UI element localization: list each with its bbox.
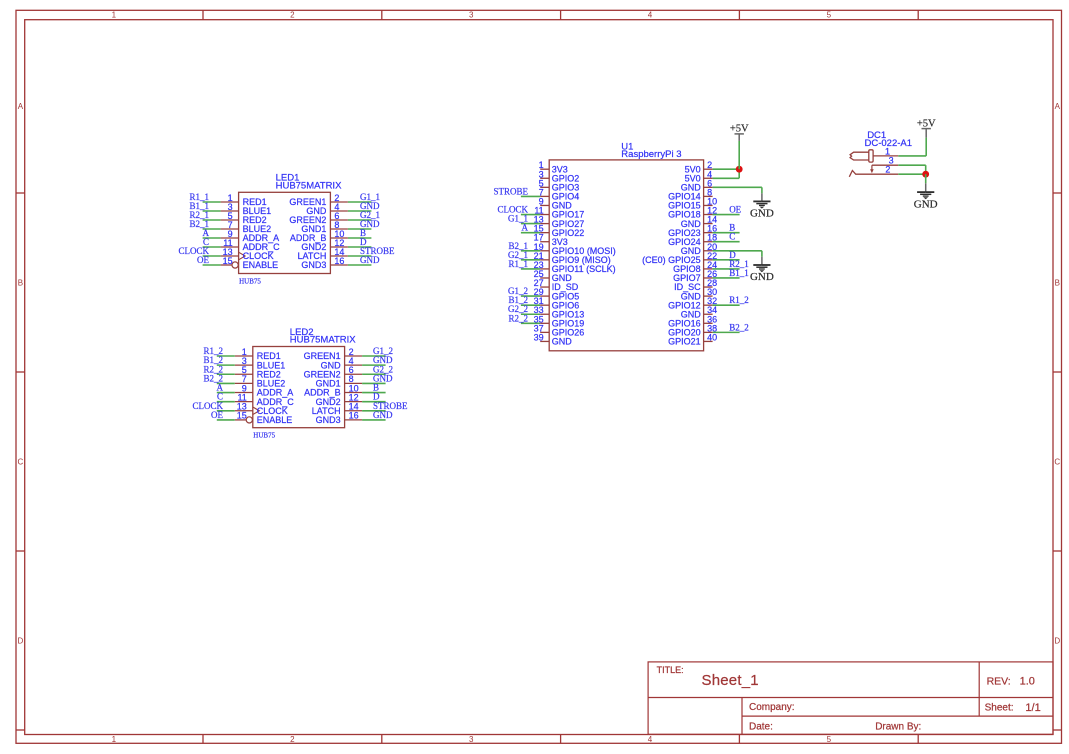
wire net D to LED1 pin 12 — [348, 246, 372, 248]
svg-text:ENABLE: ENABLE — [257, 415, 293, 425]
pin 40 GPIO21 — [704, 340, 713, 342]
connector LED1 HUB75MATRIX — [221, 173, 348, 286]
wire net A to LED2 pin 9 — [217, 392, 235, 394]
ground GND (U1 pin 6) — [750, 201, 774, 219]
svg-text:16: 16 — [349, 411, 359, 421]
junction dot DC1 — [922, 171, 929, 178]
pin 6 GND — [704, 186, 713, 188]
svg-text:C: C — [1054, 457, 1060, 466]
svg-text:3: 3 — [469, 735, 474, 744]
pin 12 GPIO18 — [704, 214, 713, 216]
pin 14 LATCH — [330, 255, 348, 257]
svg-text:ENABLE: ENABLE — [243, 260, 279, 270]
svg-text:GND: GND — [373, 410, 393, 420]
wire U1 pin 20 to GND — [713, 250, 762, 252]
pin 26 GPIO7 — [704, 277, 713, 279]
svg-text:HUB75: HUB75 — [253, 432, 275, 440]
pin 10 GPIO15 — [704, 204, 713, 206]
wire net B2_1 to U1 pin 19 — [521, 250, 540, 252]
wire U1 pin 4 — [713, 177, 740, 179]
connector LED2 HUB75MATRIX — [235, 327, 362, 440]
pin 24 GPIO8 — [704, 268, 713, 270]
svg-text:4: 4 — [648, 735, 653, 744]
wire net G1_2 to U1 pin 29 — [521, 295, 540, 297]
svg-text:Drawn By:: Drawn By: — [875, 722, 921, 733]
wire net GND to LED1 pin 8 — [348, 228, 372, 230]
svg-text:GND: GND — [914, 198, 938, 210]
wire net OE to U1 pin 12 — [713, 214, 740, 216]
wire net B2_2 to U1 pin 38 — [713, 331, 740, 333]
wire net STROBE to U1 pin 7 — [521, 195, 540, 197]
pin 30 GND — [704, 295, 713, 297]
pin 10 ADDR_B — [330, 237, 348, 239]
pin 3 — [872, 164, 898, 166]
svg-text:+5V: +5V — [917, 119, 936, 130]
pin 31 GPIO6 — [540, 304, 549, 306]
wire net B to LED2 pin 10 — [362, 392, 386, 394]
wire net B to U1 pin 16 — [713, 232, 740, 234]
wire net CLOCK to LED1 pin 13 — [203, 255, 221, 257]
wire net B1_2 to U1 pin 31 — [521, 304, 540, 306]
pin 23 GPIO11 (SCLK) — [540, 268, 549, 270]
svg-text:GPIO21: GPIO21 — [668, 337, 701, 347]
svg-text:1.0: 1.0 — [1020, 676, 1035, 688]
svg-text:Company:: Company: — [749, 702, 795, 713]
pin 7 GPIO4 — [540, 195, 549, 197]
wire net OE to LED2 pin 15 — [217, 419, 235, 421]
svg-text:OE: OE — [729, 205, 741, 215]
svg-text:2: 2 — [885, 165, 890, 175]
svg-text:GND: GND — [360, 255, 380, 265]
pin 18 GPIO24 — [704, 241, 713, 243]
ground GND (U1 pin 20) — [750, 265, 774, 283]
wire net D to U1 pin 22 — [713, 259, 740, 261]
svg-text:HUB75MATRIX: HUB75MATRIX — [290, 335, 356, 346]
wire net R1_2 to U1 pin 32 — [713, 304, 740, 306]
svg-text:B: B — [1055, 278, 1060, 287]
svg-text:C: C — [18, 457, 24, 466]
pin 8 GND1 — [345, 382, 363, 384]
svg-text:16: 16 — [334, 256, 344, 266]
wire net GND to LED1 pin 4 — [348, 210, 372, 212]
pin 27 ID_SD — [540, 286, 549, 288]
pin 16 GPIO23 — [704, 232, 713, 234]
svg-text:GND: GND — [750, 208, 774, 220]
svg-text:TITLE:: TITLE: — [657, 665, 684, 675]
pin 14 GND — [704, 223, 713, 225]
pin 13 CLOCK — [221, 255, 239, 257]
power symbol +5V (U1) — [730, 124, 749, 141]
wire net G1_1 to LED1 pin 2 — [348, 201, 372, 203]
svg-text:5: 5 — [827, 11, 832, 20]
svg-text:R2_2: R2_2 — [508, 313, 528, 323]
pin 36 GPIO16 — [704, 322, 713, 324]
svg-text:REV:: REV: — [987, 676, 1011, 688]
wire net A to LED1 pin 9 — [203, 237, 221, 239]
svg-text:D: D — [1054, 636, 1060, 645]
pin 12 GND2 — [330, 246, 348, 248]
svg-text:A: A — [1055, 102, 1061, 111]
wire net B1_2 to LED2 pin 3 — [217, 364, 235, 366]
pin 10 ADDR_B — [345, 392, 363, 394]
wire net STROBE to LED2 pin 14 — [362, 410, 386, 412]
pin 20 GND — [704, 250, 713, 252]
svg-text:15: 15 — [223, 256, 233, 266]
wire net B2_2 to LED2 pin 7 — [217, 382, 235, 384]
wire DC1 pin 1 to +5V — [898, 155, 926, 157]
wire net A to U1 pin 15 — [521, 232, 540, 234]
pin 13 GPIO27 — [540, 223, 549, 225]
svg-text:15: 15 — [237, 411, 247, 421]
svg-text:B1_1: B1_1 — [729, 268, 749, 278]
wire net B1_1 to U1 pin 26 — [713, 277, 740, 279]
pin 5 RED2 — [235, 373, 253, 375]
wire net G1_2 to LED2 pin 2 — [362, 355, 386, 357]
wire net GND to LED2 pin 4 — [362, 364, 386, 366]
connector DC1 DC-022-A1 — [849, 130, 912, 177]
pin 2 GREEN1 — [330, 201, 348, 203]
wire net STROBE to LED1 pin 14 — [348, 255, 372, 257]
svg-text:HUB75MATRIX: HUB75MATRIX — [276, 180, 342, 191]
junction dot — [736, 166, 743, 173]
svg-text:A: A — [522, 223, 529, 233]
wire U1 pin 2 to +5V junction — [713, 168, 740, 170]
pin 16 GND3 — [345, 419, 363, 421]
pin 39 GND — [540, 340, 549, 342]
svg-text:1: 1 — [112, 11, 117, 20]
pin 1 3V3 — [540, 168, 549, 170]
pin 2 GREEN1 — [345, 355, 363, 357]
svg-text:4: 4 — [648, 11, 653, 20]
svg-text:Sheet:: Sheet: — [985, 703, 1014, 714]
wire net R1_2 to LED2 pin 1 — [217, 355, 235, 357]
svg-text:1: 1 — [112, 735, 117, 744]
svg-text:2: 2 — [290, 735, 295, 744]
svg-text:GND3: GND3 — [316, 415, 341, 425]
pin 2 — [849, 171, 898, 177]
pin 1 — [873, 155, 898, 157]
ground GND (DC1) — [914, 192, 938, 210]
svg-text:OE: OE — [197, 255, 209, 265]
pin 4 5V0 — [704, 177, 713, 179]
wire net CLOCK to U1 pin 11 — [521, 214, 540, 216]
pin 2 5V0 — [704, 168, 713, 170]
pin 4 GND — [345, 364, 363, 366]
wire DC1 pin 2 — [898, 173, 925, 175]
pin 11 ADDR_C — [235, 401, 253, 403]
pin 14 LATCH — [345, 410, 363, 412]
wire net OE to LED1 pin 15 — [203, 264, 221, 266]
power symbol +5V (DC1) — [917, 119, 936, 138]
pin 19 GPIO10 (MOSI) — [540, 250, 549, 252]
pin 15 ENABLE — [221, 264, 233, 266]
pin 22 (CE0) GPIO25 — [704, 259, 713, 261]
pin 11 ADDR_C — [221, 246, 239, 248]
wire net C to U1 pin 18 — [713, 241, 740, 243]
pin 11 GPIO17 — [540, 214, 549, 216]
wire junction to +5V — [738, 141, 740, 169]
wire net D to LED2 pin 12 — [362, 401, 386, 403]
wire net G1_1 to U1 pin 13 — [521, 223, 540, 225]
pin 16 GND3 — [330, 264, 348, 266]
pin 15 ENABLE — [235, 419, 247, 421]
svg-text:OE: OE — [211, 410, 223, 420]
svg-text:HUB75: HUB75 — [239, 277, 261, 285]
svg-text:40: 40 — [707, 332, 717, 342]
wire net CLOCK to LED2 pin 13 — [217, 410, 235, 412]
pin 28 ID_SC — [704, 286, 713, 288]
pin 8 GND1 — [330, 228, 348, 230]
pin 25 GND — [540, 277, 549, 279]
svg-text:R1_2: R1_2 — [729, 295, 749, 305]
svg-text:RaspberryPi 3: RaspberryPi 3 — [621, 149, 681, 160]
svg-text:1/1: 1/1 — [1025, 702, 1040, 714]
svg-text:STROBE: STROBE — [493, 186, 528, 196]
pin 37 GPIO26 — [540, 331, 549, 333]
svg-text:5: 5 — [827, 735, 832, 744]
wire net R2_2 to U1 pin 35 — [521, 322, 540, 324]
svg-text:D: D — [18, 636, 24, 645]
svg-text:39: 39 — [534, 332, 544, 342]
pin 3 BLUE1 — [235, 364, 253, 366]
pin 29 GPIO5 — [540, 295, 549, 297]
svg-text:B: B — [18, 278, 23, 287]
wire U1 pin 6 to GND — [713, 186, 762, 188]
pin 32 GPIO12 — [704, 304, 713, 306]
wire net R2_1 to U1 pin 24 — [713, 268, 740, 270]
pin 9 GND — [540, 204, 549, 206]
pin 6 GREEN2 — [345, 373, 363, 375]
pin 4 GND — [330, 210, 348, 212]
pin 8 GPIO14 — [704, 195, 713, 197]
svg-text:3: 3 — [469, 11, 474, 20]
wire net R1_1 to LED1 pin 1 — [203, 201, 221, 203]
wire net GND to LED1 pin 16 — [348, 264, 372, 266]
pin 35 GPIO19 — [540, 322, 549, 324]
pin 9 ADDR_A — [221, 237, 239, 239]
svg-text:Sheet_1: Sheet_1 — [702, 672, 759, 689]
svg-text:2: 2 — [290, 11, 295, 20]
pin 1 RED1 — [221, 201, 239, 203]
svg-text:GND3: GND3 — [301, 260, 326, 270]
svg-text:C: C — [729, 232, 735, 242]
wire net R1_1 to U1 pin 23 — [521, 268, 540, 270]
pin 1 RED1 — [235, 355, 253, 357]
wire net C to LED2 pin 11 — [217, 401, 235, 403]
pin 7 BLUE2 — [221, 228, 239, 230]
svg-text:Date:: Date: — [749, 722, 773, 733]
pin 38 GPIO20 — [704, 331, 713, 333]
pin 17 3V3 — [540, 241, 549, 243]
wire net GND to LED2 pin 16 — [362, 419, 386, 421]
wire net G2_1 to U1 pin 21 — [521, 259, 540, 261]
svg-text:GND: GND — [750, 271, 774, 283]
svg-text:B2_2: B2_2 — [729, 322, 749, 332]
pin 9 ADDR_A — [235, 392, 253, 394]
pin 21 GPIO9 (MISO) — [540, 259, 549, 261]
wire net B2_1 to LED1 pin 7 — [203, 228, 221, 230]
wire net R2_1 to LED1 pin 5 — [203, 219, 221, 221]
wire DC1 pin 3 — [898, 164, 925, 166]
wire net B1_1 to LED1 pin 3 — [203, 210, 221, 212]
pin 7 BLUE2 — [235, 382, 253, 384]
svg-text:A: A — [18, 102, 24, 111]
pin 5 RED2 — [221, 219, 239, 221]
wire net G2_2 to LED2 pin 6 — [362, 373, 386, 375]
svg-text:+5V: +5V — [730, 124, 749, 135]
wire vertical pin4 to junction — [738, 169, 740, 178]
wire net B to LED1 pin 10 — [348, 237, 372, 239]
pin 15 GPIO22 — [540, 232, 549, 234]
pin 3 GPIO2 — [540, 177, 549, 179]
title block — [648, 662, 1053, 734]
pin 6 GREEN2 — [330, 219, 348, 221]
pin 12 GND2 — [345, 401, 363, 403]
pin 33 GPIO13 — [540, 313, 549, 315]
svg-text:GND: GND — [552, 337, 573, 347]
pin 5 GPIO3 — [540, 186, 549, 188]
wire net G2_2 to U1 pin 33 — [521, 313, 540, 315]
wire net G2_1 to LED1 pin 6 — [348, 219, 372, 221]
pin 13 CLOCK — [235, 410, 253, 412]
wire net GND to LED2 pin 8 — [362, 382, 386, 384]
wire net C to LED1 pin 11 — [203, 246, 221, 248]
IC U1 RaspberryPi 3 — [534, 141, 717, 350]
pin 34 GND — [704, 313, 713, 315]
wire net R2_2 to LED2 pin 5 — [217, 373, 235, 375]
svg-text:R1_1: R1_1 — [508, 259, 528, 269]
pin 3 BLUE1 — [221, 210, 239, 212]
wire junction to GND — [925, 174, 927, 183]
